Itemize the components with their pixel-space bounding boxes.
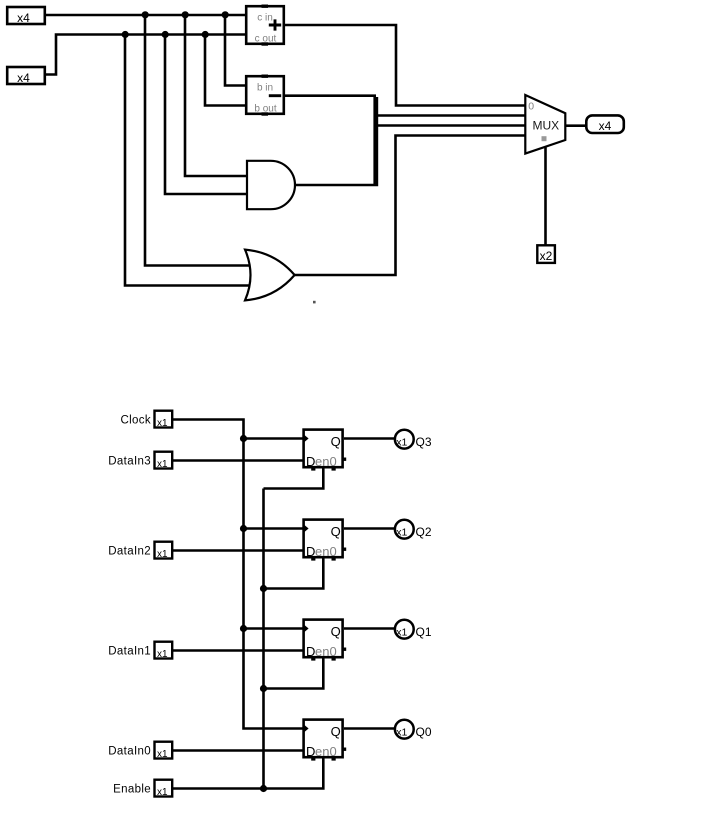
svg-text:x4: x4	[17, 71, 30, 85]
svg-text:x1: x1	[157, 787, 168, 798]
svg-text:Enable: Enable	[113, 784, 151, 796]
svg-text:Q1: Q1	[416, 625, 432, 639]
wire OR out up to MUX in3	[294, 136, 526, 276]
svg-text:x1: x1	[157, 459, 168, 470]
output pin Q2 x1	[395, 520, 432, 539]
wire Q1 out	[344, 627, 395, 630]
svg-text:Q: Q	[331, 624, 341, 639]
svg-text:DataIn3: DataIn3	[108, 456, 151, 468]
wire P2 stub	[46, 35, 248, 75]
wire clk row3	[244, 627, 304, 630]
wire clk row1	[244, 437, 304, 440]
wire adder out to MUX in0	[284, 25, 526, 106]
svg-text:DataIn2: DataIn2	[108, 546, 151, 558]
wire vertical x125 to OR lower	[125, 35, 249, 286]
input pin DataIn0 x1	[155, 742, 173, 759]
svg-text:Q: Q	[331, 434, 341, 449]
flip-flop FF1	[304, 430, 347, 471]
junction dots bus1	[142, 11, 149, 18]
wire vertical x185 to AND upper	[185, 15, 249, 176]
wire DataIn3	[173, 459, 303, 462]
wire MUX out	[565, 124, 587, 127]
svg-text:b out: b out	[254, 104, 276, 115]
output pin Q1 x1	[395, 620, 432, 639]
svg-text:0: 0	[528, 100, 534, 112]
output pin x4	[586, 115, 624, 133]
OR gate G2	[245, 250, 295, 301]
svg-text:D: D	[306, 454, 315, 469]
input pin Clock x1	[155, 411, 173, 428]
svg-text:en0: en0	[315, 454, 337, 469]
junction dots bus2	[122, 31, 129, 38]
subtractor U2	[246, 75, 284, 116]
wire en bracket row2	[264, 558, 324, 589]
svg-text:Q2: Q2	[416, 525, 432, 539]
stray dot	[313, 301, 316, 304]
input pin DataIn1 x1	[155, 642, 173, 659]
svg-text:Clock: Clock	[120, 415, 151, 427]
wire vertical x165 to AND lower	[165, 35, 249, 195]
input pin Enable x1	[155, 780, 173, 797]
svg-text:Q3: Q3	[416, 435, 432, 449]
wire vertical x205 to subtractor b out	[205, 35, 248, 106]
wire Clock to trunk	[173, 420, 244, 439]
svg-text:x1: x1	[157, 418, 168, 429]
wire vertical x145 to OR upper	[145, 15, 249, 266]
wire bus1 from P1	[46, 14, 248, 17]
wire MUX select	[544, 148, 547, 246]
wire DataIn1	[173, 649, 303, 652]
wire enable trunk	[262, 489, 265, 789]
output pin Q0 x1	[395, 720, 432, 739]
wire en bracket row3	[264, 658, 324, 689]
flip-flop FF2	[304, 520, 347, 561]
input pin DataIn3 x1	[155, 452, 173, 469]
svg-text:x1: x1	[396, 627, 407, 639]
svg-text:D: D	[306, 644, 315, 659]
wire DataIn2	[173, 549, 303, 552]
svg-text:en0: en0	[315, 744, 337, 759]
svg-text:b in: b in	[257, 83, 273, 94]
junction dot enable	[260, 785, 267, 792]
wire Enable to FF4 en	[173, 758, 323, 789]
input pin P2 x4	[7, 67, 45, 85]
svg-text:x4: x4	[599, 119, 612, 133]
input pin DataIn2 x1	[155, 542, 173, 559]
flip-flop FF3	[304, 620, 347, 661]
svg-text:en0: en0	[315, 544, 337, 559]
svg-text:x1: x1	[157, 749, 168, 760]
wire en bracket row1	[264, 468, 324, 489]
svg-text:x1: x1	[396, 437, 407, 449]
svg-text:c in: c in	[257, 13, 273, 24]
wire DataIn0	[173, 749, 303, 752]
adder U1	[246, 5, 284, 46]
input pin P1 x4	[7, 7, 45, 25]
output pin Q3 x1	[395, 430, 432, 449]
svg-text:D: D	[306, 744, 315, 759]
svg-text:MUX: MUX	[533, 119, 560, 133]
wire Q3 out	[344, 437, 395, 440]
wire vertical x225 to subtractor b in	[225, 15, 248, 86]
svg-text:x4: x4	[17, 11, 30, 25]
wire Q2 out	[344, 527, 395, 530]
svg-text:c out: c out	[255, 34, 277, 45]
svg-text:x1: x1	[157, 549, 168, 560]
junction dots clock trunk	[240, 435, 247, 442]
svg-text:Q0: Q0	[416, 725, 432, 739]
MUX U3	[525, 95, 565, 154]
wire clk row2	[244, 527, 304, 530]
svg-text:DataIn0: DataIn0	[108, 746, 151, 758]
svg-text:x1: x1	[396, 527, 407, 539]
wire AND out up to MUX in1	[295, 97, 527, 185]
flip-flop FF4	[304, 720, 347, 761]
svg-text:x1: x1	[396, 727, 407, 739]
svg-text:x2: x2	[540, 249, 553, 263]
svg-text:x1: x1	[157, 649, 168, 660]
AND gate G1	[247, 161, 295, 209]
wire Q0 out	[344, 727, 395, 730]
svg-text:Q: Q	[331, 724, 341, 739]
input pin x2 select	[537, 245, 555, 263]
svg-text:D: D	[306, 544, 315, 559]
svg-text:en0: en0	[315, 644, 337, 659]
svg-text:DataIn1: DataIn1	[108, 646, 151, 658]
svg-text:Q: Q	[331, 524, 341, 539]
wire subtractor out down to MUX in2	[284, 96, 526, 184]
wire clock trunk	[244, 439, 304, 729]
